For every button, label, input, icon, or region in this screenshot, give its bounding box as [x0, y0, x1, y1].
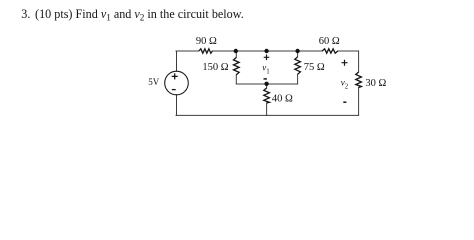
resistor R 75-ohm zigzag	[295, 57, 301, 75]
resistor R 150-ohm zigzag	[234, 57, 240, 74]
wire 75-ohm column top stub	[297, 51, 299, 57]
wire top rail segment 1	[176, 50, 199, 52]
svg-text:30 Ω: 30 Ω	[365, 78, 386, 89]
voltage source plus sign	[172, 73, 178, 79]
wire top-left vertical (source top to top rail)	[176, 51, 178, 71]
voltage source V1 circle	[165, 71, 189, 95]
wire 40-ohm column bottom stub	[266, 103, 268, 115]
resistor R 30-ohm zigzag	[356, 72, 362, 88]
node dot C (top of 75-ohm)	[295, 49, 299, 53]
wire 150-ohm column bottom stub	[235, 75, 237, 84]
resistor R 90-ohm zigzag	[199, 49, 213, 53]
wire right column top	[358, 51, 360, 72]
wire right column bottom	[358, 88, 360, 116]
v1 minus sign	[264, 78, 267, 80]
svg-text:40 Ω: 40 Ω	[272, 93, 293, 104]
wire 40-ohm column top stub	[266, 84, 268, 88]
wire 150-ohm column top stub	[235, 51, 237, 57]
wire top rail segment 2	[212, 50, 322, 52]
wire top rail segment 3	[338, 50, 359, 52]
svg-text:75 Ω: 75 Ω	[304, 62, 325, 73]
svg-text:150 Ω: 150 Ω	[202, 62, 228, 73]
v2 plus sign	[342, 60, 348, 66]
svg-text:90 Ω: 90 Ω	[196, 36, 217, 47]
resistor R 40-ohm zigzag	[264, 88, 270, 103]
svg-text:5V: 5V	[148, 77, 160, 87]
wire bottom rail	[176, 114, 359, 116]
node dot B (top of v1 branch)	[264, 49, 268, 53]
wire left column bottom (source bottom to bottom rail)	[176, 95, 178, 116]
voltage source minus sign	[172, 89, 176, 91]
svg-text:60 Ω: 60 Ω	[319, 36, 340, 47]
v1 plus sign	[264, 55, 270, 61]
resistor R 60-ohm zigzag	[322, 49, 338, 53]
svg-text:3. (10 pts) Find v1 and v2 in: 3. (10 pts) Find v1 and v2 in the circui…	[21, 7, 243, 22]
node dot A (after 90-ohm, top of 150-ohm)	[234, 49, 238, 53]
wire 75-ohm column bottom stub	[297, 74, 299, 84]
svg-text:v2: v2	[341, 78, 349, 91]
svg-text:v1: v1	[262, 62, 269, 75]
node dot D (middle rail, top of 40-ohm)	[264, 82, 268, 86]
wire middle rail (node v1 bottom)	[236, 83, 297, 85]
v2 minus sign	[343, 101, 346, 103]
